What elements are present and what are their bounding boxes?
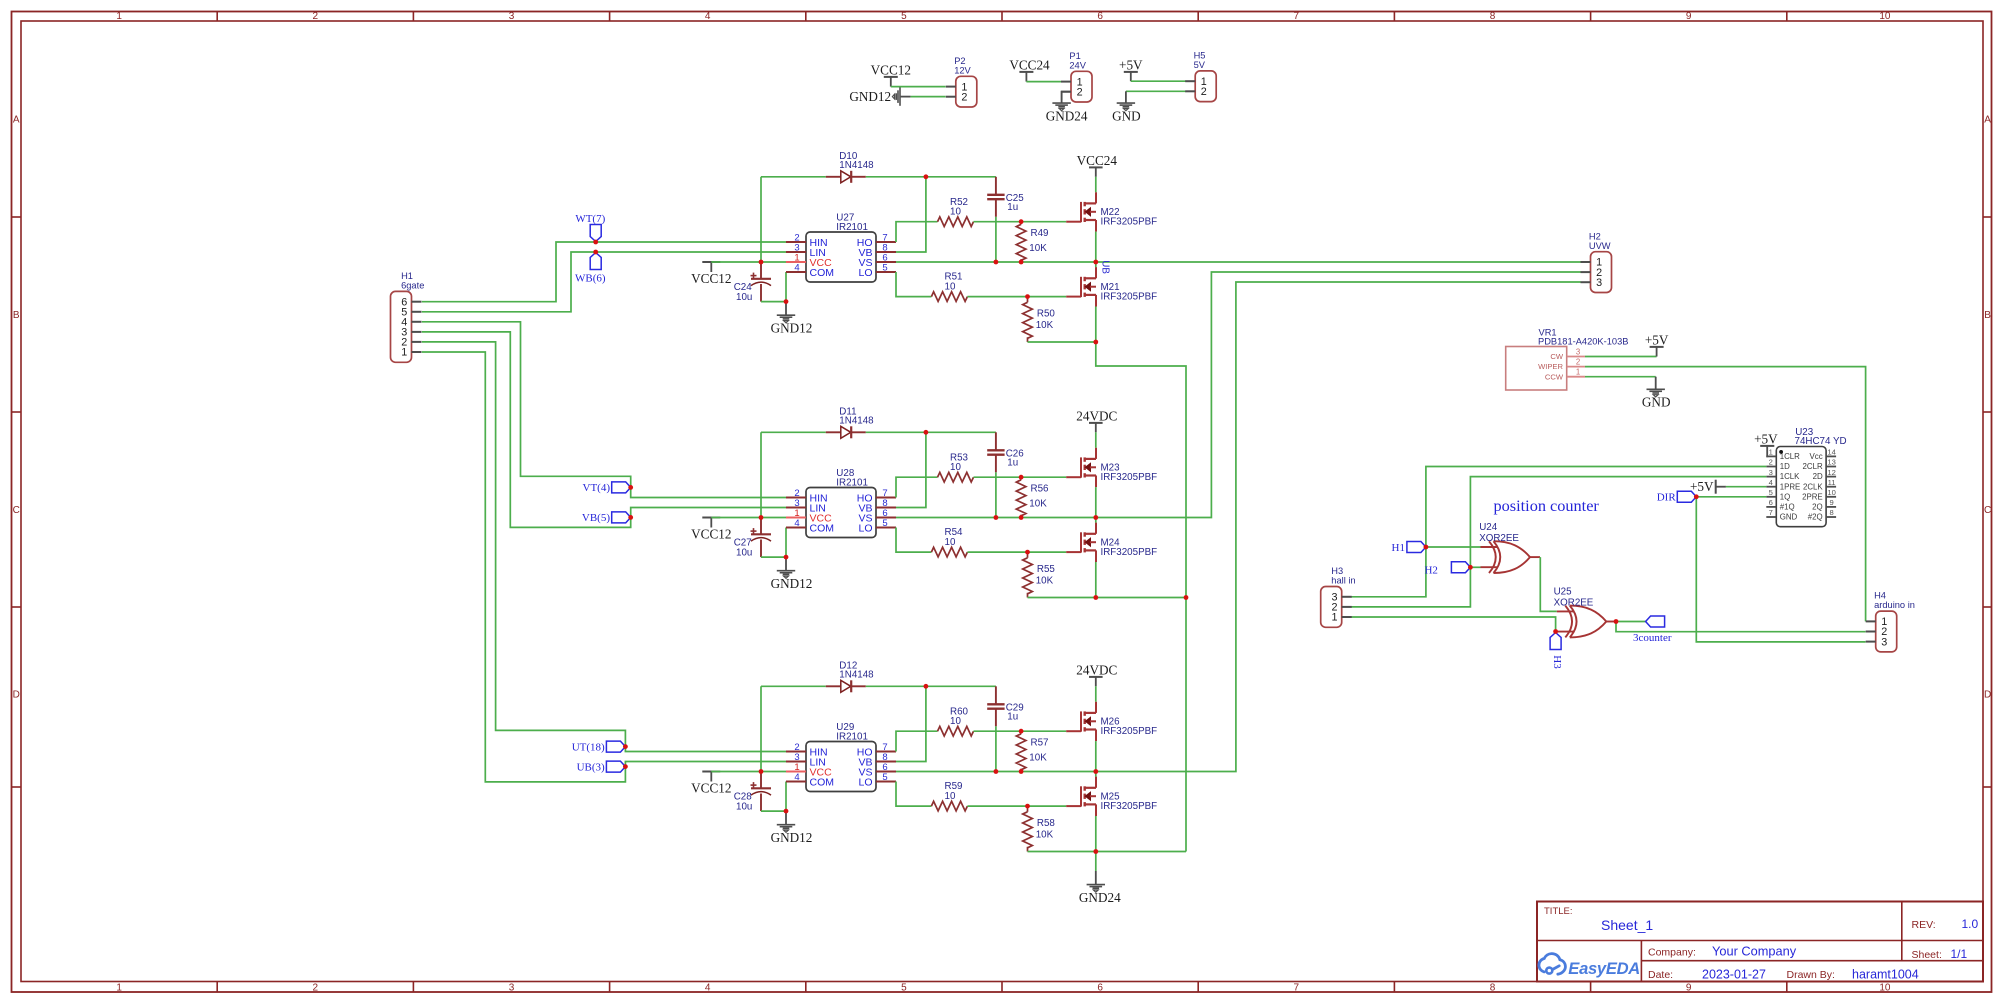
svg-text:GND: GND [1642,395,1671,410]
wire VCC24 to P1 pin1 [1026,81,1061,83]
wire H1.1 UB(3) to U29 LIN [422,352,786,782]
svg-text:VCC12: VCC12 [871,62,911,77]
transistor M23 [1066,476,1081,478]
svg-text:GND24: GND24 [1046,109,1088,124]
svg-text:WIPER: WIPER [1538,362,1563,371]
junction [1093,849,1098,854]
wire source to VS [1095,741,1097,771]
net label H2 [1451,562,1470,573]
resistor R53 [938,472,974,482]
svg-text:10: 10 [950,207,961,218]
wire R bottom lead [1020,259,1022,262]
junction [1019,475,1024,480]
svg-text:VT(4): VT(4) [583,482,611,494]
svg-text:10: 10 [945,282,956,293]
wire to diode D12 [761,685,826,687]
wire pulldown to source [1028,597,1096,599]
wire H3.1 to U25.B [1351,617,1556,632]
svg-text:5: 5 [1769,488,1773,497]
svg-text:6gate: 6gate [401,281,424,291]
title block [1537,902,1983,982]
wire DIR 1Q [1696,496,1766,498]
net label 3counter [1646,616,1665,627]
junction [759,769,764,774]
IC U28 IR2101 gate driver [806,488,876,538]
wire VCC12 to P2 pin1 [891,86,946,88]
wire drain to supply [1095,686,1097,701]
svg-text:H1: H1 [1392,542,1405,554]
svg-text:IR2101: IR2101 [836,731,868,742]
net label WB(6) [590,253,601,270]
svg-text:arduino in: arduino in [1874,600,1915,610]
svg-text:U25: U25 [1554,586,1573,597]
svg-text:10: 10 [1827,488,1835,497]
junction [1019,260,1024,265]
wire VR1 WIPER to H4.1 [1585,367,1866,622]
resistor R51 [931,292,967,302]
wire pulldown to source [1028,851,1096,853]
svg-text:VCC12: VCC12 [691,526,731,541]
svg-text:UT(18): UT(18) [572,741,605,753]
junction [628,485,633,490]
resistor R60 [938,726,974,736]
junction [1093,260,1098,265]
svg-text:2: 2 [1201,86,1207,98]
svg-text:R58: R58 [1037,818,1056,829]
svg-text:3: 3 [509,11,515,22]
net label UB(3) [606,761,625,772]
svg-text:10: 10 [1879,11,1891,22]
junction [1019,729,1024,734]
connector H4 [1876,611,1897,652]
wire R bottom lead [1027,337,1029,342]
svg-text:Vcc: Vcc [1810,452,1823,461]
wire C bottom to VS [995,726,997,771]
svg-text:9: 9 [1829,498,1833,507]
svg-text:1/1: 1/1 [1951,947,1968,961]
svg-text:VCC12: VCC12 [691,271,731,286]
wire block2 source row [1096,597,1186,599]
svg-text:GND12: GND12 [771,576,813,591]
wire gate resistor to M24 [967,551,1066,553]
svg-text:2PRE: 2PRE [1802,492,1823,501]
svg-text:2CLR: 2CLR [1803,462,1823,471]
svg-text:VCC12: VCC12 [691,780,731,795]
transistor M22 [1066,221,1081,223]
svg-text:5: 5 [901,11,907,22]
junction [1093,769,1098,774]
junction [924,174,929,179]
svg-text:Date:: Date: [1648,969,1673,981]
junction [1025,294,1030,299]
svg-text:IR2101: IR2101 [836,222,868,233]
junction [628,515,633,520]
svg-text:2: 2 [1077,86,1083,98]
connector P1 [1071,71,1092,102]
wire +5V to 1PRE [1726,486,1766,488]
wire gate resistor to M22 [974,221,1067,223]
svg-text:GND24: GND24 [1079,890,1121,905]
svg-text:IRF3205PBF: IRF3205PBF [1101,217,1158,228]
power flag VCC12 [702,517,720,519]
svg-text:1u: 1u [1007,457,1018,468]
junction [1468,565,1473,570]
svg-text:Sheet_1: Sheet_1 [1601,917,1653,933]
svg-text:COM: COM [810,522,835,534]
capacitor C28 [760,772,762,789]
svg-text:10: 10 [945,791,956,802]
connector H1 [391,291,412,362]
svg-text:CCW: CCW [1545,372,1564,381]
svg-text:UVW: UVW [1589,241,1611,251]
wire to GND24 [1095,852,1097,872]
junction [759,260,764,265]
svg-text:1u: 1u [1007,711,1018,722]
svg-text:9: 9 [1686,982,1692,993]
svg-text:8: 8 [1490,11,1496,22]
IC U27 IR2101 gate driver [806,232,876,282]
svg-text:1: 1 [1576,368,1580,377]
resistor R49 [1016,224,1026,260]
wire R bottom lead [1020,769,1022,772]
IC U23 74HC74 flip-flop [1776,447,1826,527]
svg-text:3: 3 [1576,347,1580,356]
svg-text:UB: UB [1099,260,1110,274]
junction [1019,769,1024,774]
svg-text:1u: 1u [1007,202,1018,213]
junction [924,684,929,689]
wire phase V to H2.2 [896,272,1581,518]
svg-text:3: 3 [1596,277,1602,289]
wire diode cathode to C bootstrap [866,431,996,433]
svg-text:H2: H2 [1589,231,1601,241]
svg-text:IRF3205PBF: IRF3205PBF [1101,547,1158,558]
wire source to VS [1095,232,1097,262]
svg-text:H5: H5 [1194,51,1206,61]
svg-text:1: 1 [116,11,122,22]
svg-text:3: 3 [509,982,515,993]
wire U25 out to 3counter tag [1616,621,1646,623]
junction [759,515,764,520]
svg-text:R50: R50 [1037,309,1056,320]
svg-text:10: 10 [945,537,956,548]
svg-text:hall in: hall in [1331,576,1355,586]
power flag +5V (U23 1PRE) [1715,480,1717,494]
svg-text:10K: 10K [1036,829,1054,840]
wire H3.3 H1 to U23 1D [1351,467,1767,597]
svg-text:1PRE: 1PRE [1780,482,1801,491]
wire drain to supply [1095,177,1097,192]
power flag VCC24 [1089,166,1103,168]
svg-text:4: 4 [794,772,799,783]
svg-text:position counter: position counter [1494,496,1600,515]
svg-text:IRF3205PBF: IRF3205PBF [1101,472,1158,483]
junction [1025,550,1030,555]
junction [1694,494,1699,499]
svg-text:Your Company: Your Company [1712,944,1797,959]
ground GND24 [1095,871,1097,884]
wire gate resistor to M26 [974,730,1067,732]
wire U VB to bootstrap [896,177,926,252]
junction [1614,619,1619,624]
wire R top lead [1027,806,1029,812]
resistor R58 [1023,812,1033,848]
svg-text:24VDC: 24VDC [1076,408,1117,423]
connector P2 [956,76,977,107]
diode D11 [826,431,841,433]
svg-text:LO: LO [858,776,872,788]
wire source down [1095,816,1097,852]
wire U24 out to U25.A [1540,557,1557,611]
svg-text:haramt1004: haramt1004 [1852,967,1919,981]
wire H1.5 WB(6) to U27 LIN [422,252,786,312]
junction [994,260,999,265]
svg-text:10u: 10u [736,548,752,559]
junction [1184,595,1189,600]
wire U COM down [785,272,787,302]
wire H3.2 H2 to U23 1CLK [1351,477,1767,607]
svg-text:+5V: +5V [1119,57,1143,72]
wire block3 source row [1096,851,1186,853]
capacitor C25 [995,177,997,195]
svg-text:5: 5 [882,518,887,529]
svg-text:LO: LO [858,522,872,534]
svg-text:10K: 10K [1029,753,1047,764]
wire H5 pin2 to GND [1126,90,1186,92]
resistor R52 [938,217,974,227]
svg-text:LO: LO [858,267,872,279]
wire R top lead [1020,731,1022,734]
svg-text:#1Q: #1Q [1780,503,1795,512]
svg-text:R55: R55 [1037,564,1056,575]
svg-text:10: 10 [950,462,961,473]
wire C bottom to VS [995,472,997,517]
wire LO to gate resistor [896,782,931,807]
svg-text:Drawn By:: Drawn By: [1787,969,1835,981]
svg-text:5: 5 [901,982,907,993]
wire VR1 CW to +5V [1585,356,1657,358]
svg-text:H3: H3 [1331,566,1343,576]
svg-text:5V: 5V [1194,60,1206,70]
svg-text:2: 2 [961,91,967,103]
ground GND [1125,100,1127,103]
transistor M21 [1066,296,1081,298]
svg-text:VCC24: VCC24 [1077,153,1118,168]
transistor M24 [1066,551,1081,553]
power flag +5V [1650,346,1664,348]
wire GND drop [1125,91,1127,100]
svg-text:2Q: 2Q [1812,503,1823,512]
svg-text:5: 5 [882,262,887,273]
svg-text:10K: 10K [1036,320,1054,331]
XOR gate U25 [1557,610,1574,612]
svg-text:1N4148: 1N4148 [839,416,874,427]
svg-text:9: 9 [1686,11,1692,22]
wire D anode riser [760,686,762,771]
capacitor C24 [760,262,762,279]
svg-text:+5V: +5V [1690,479,1714,494]
net label H3 [1550,633,1561,650]
svg-text:P1: P1 [1069,51,1080,61]
svg-text:12: 12 [1827,468,1835,477]
svg-text:24VDC: 24VDC [1076,662,1117,677]
svg-text:4: 4 [794,262,799,273]
svg-text:4: 4 [705,11,711,22]
junction [784,555,789,560]
junction [623,764,628,769]
svg-text:2023-01-27: 2023-01-27 [1702,967,1766,981]
resistor R59 [931,801,967,811]
svg-text:H1: H1 [401,271,413,281]
transistor M26 [1066,730,1081,732]
wire U COM down [785,782,787,812]
svg-text:10u: 10u [736,802,752,813]
wire to diode D11 [761,431,826,433]
connector H3 [1321,587,1342,628]
svg-text:D: D [13,690,20,701]
svg-text:B: B [13,310,20,321]
ground GND12 [785,302,787,315]
svg-text:6: 6 [1097,982,1103,993]
junction [1093,595,1098,600]
svg-text:10K: 10K [1029,243,1047,254]
svg-text:3counter: 3counter [1633,632,1672,644]
net label WT(7) [590,225,601,242]
power flag VCC12 [702,261,720,263]
svg-text:WT(7): WT(7) [575,213,605,225]
svg-text:2: 2 [1769,458,1773,467]
wire H1.4 VT(4) to U28 HIN [422,322,786,498]
junction [1093,515,1098,520]
wire diode cathode to C bootstrap [866,685,996,687]
wire H2 to U24.B [1470,566,1480,568]
resistor R57 [1016,734,1026,770]
net label UT(18) [606,741,625,752]
wire LO to gate resistor [896,528,931,553]
ground GND12 [901,96,911,98]
svg-text:IR2101: IR2101 [836,477,868,488]
svg-text:2: 2 [313,982,319,993]
capacitor C29 [995,686,997,704]
svg-text:COM: COM [810,776,835,788]
power flag VCC24 (P1) [1019,71,1033,73]
svg-text:EasyEDA: EasyEDA [1568,959,1640,978]
svg-text:4: 4 [705,982,711,993]
svg-text:XOR2EE: XOR2EE [1554,597,1594,608]
svg-text:IRF3205PBF: IRF3205PBF [1101,726,1158,737]
svg-text:10K: 10K [1036,575,1054,586]
svg-text:4: 4 [794,518,799,529]
wire 3counter to H4.2 [1616,622,1866,632]
junction [924,430,929,435]
wire phase W to H2.3 [896,282,1581,772]
svg-text:13: 13 [1827,458,1835,467]
connector H5 [1195,71,1216,102]
junction [994,769,999,774]
ground GND12 [785,811,787,824]
svg-text:7: 7 [1294,982,1300,993]
svg-text:2D: 2D [1813,472,1823,481]
resistor R54 [931,547,967,557]
wire VS to drain [1095,772,1097,777]
wire R top lead [1027,552,1029,558]
svg-text:XOR2EE: XOR2EE [1479,533,1519,544]
svg-text:10: 10 [950,716,961,727]
svg-text:+5V: +5V [1645,333,1669,348]
wire R bottom lead [1027,847,1029,852]
svg-text:WB(6): WB(6) [575,273,606,285]
svg-text:1N4148: 1N4148 [839,670,874,681]
svg-text:GND: GND [1780,513,1798,522]
svg-text:Sheet:: Sheet: [1912,949,1942,961]
XOR gate U24 [1481,546,1498,548]
svg-text:H4: H4 [1874,591,1886,601]
svg-text:1: 1 [116,982,122,993]
wire U VB to bootstrap [896,686,926,761]
svg-text:VCC24: VCC24 [1009,57,1050,72]
wire M21 source bus down [1096,342,1186,598]
junction [593,240,598,245]
wire VCC12 to U VCC [711,771,786,773]
wire GND12 to P2 pin2 [911,96,946,98]
svg-text:TITLE:: TITLE: [1544,906,1573,917]
wire P1 pin2 to GND24 [1062,92,1071,100]
power flag +5V (U23 1CLR) [1760,445,1774,447]
svg-text:#2Q: #2Q [1808,513,1823,522]
IC U29 IR2101 gate driver [806,742,876,792]
svg-text:1Q: 1Q [1780,492,1791,501]
ground GND24 [1061,100,1063,103]
wire +5V to H5 pin1 [1131,80,1186,82]
wire gate resistor to M23 [974,476,1067,478]
svg-text:7: 7 [1769,508,1773,517]
wire R top lead [1020,477,1022,480]
svg-text:IRF3205PBF: IRF3205PBF [1101,291,1158,302]
wire source down [1095,307,1097,343]
diode D10 [826,176,841,178]
net label VB(5) [612,512,631,523]
wire to diode D10 [761,176,826,178]
wire LO to gate resistor [896,272,931,297]
connector H2 [1591,252,1612,293]
junction [1019,219,1024,224]
junction [593,250,598,255]
wire U VB to bootstrap [896,432,926,507]
wire gate resistor to M21 [967,296,1066,298]
wire DIR to H4.3 [1696,497,1865,642]
wire diode cathode to C bootstrap [866,176,996,178]
junction [623,744,628,749]
capacitor C27 [760,518,762,535]
power flag 24VDC [1089,676,1103,678]
svg-text:3: 3 [1881,636,1887,648]
wire C- to COM/GND [761,301,786,303]
svg-text:+5V: +5V [1754,431,1778,446]
svg-text:10u: 10u [736,292,752,303]
svg-text:4: 4 [1769,478,1773,487]
svg-text:R56: R56 [1031,484,1050,495]
wire HO to gate resistor [896,222,938,242]
resistor R56 [1016,480,1026,516]
junction [784,809,789,814]
wire R top lead [1027,297,1029,303]
wire VCC12 to U VCC [711,517,786,519]
svg-text:1: 1 [401,347,407,359]
svg-text:1D: 1D [1780,462,1790,471]
potentiometer VR1 PDB181-A420K-103B [1506,347,1567,391]
net label VT(4) [612,482,631,493]
wire H1.6 WT(7) to U27 HIN [422,242,786,302]
